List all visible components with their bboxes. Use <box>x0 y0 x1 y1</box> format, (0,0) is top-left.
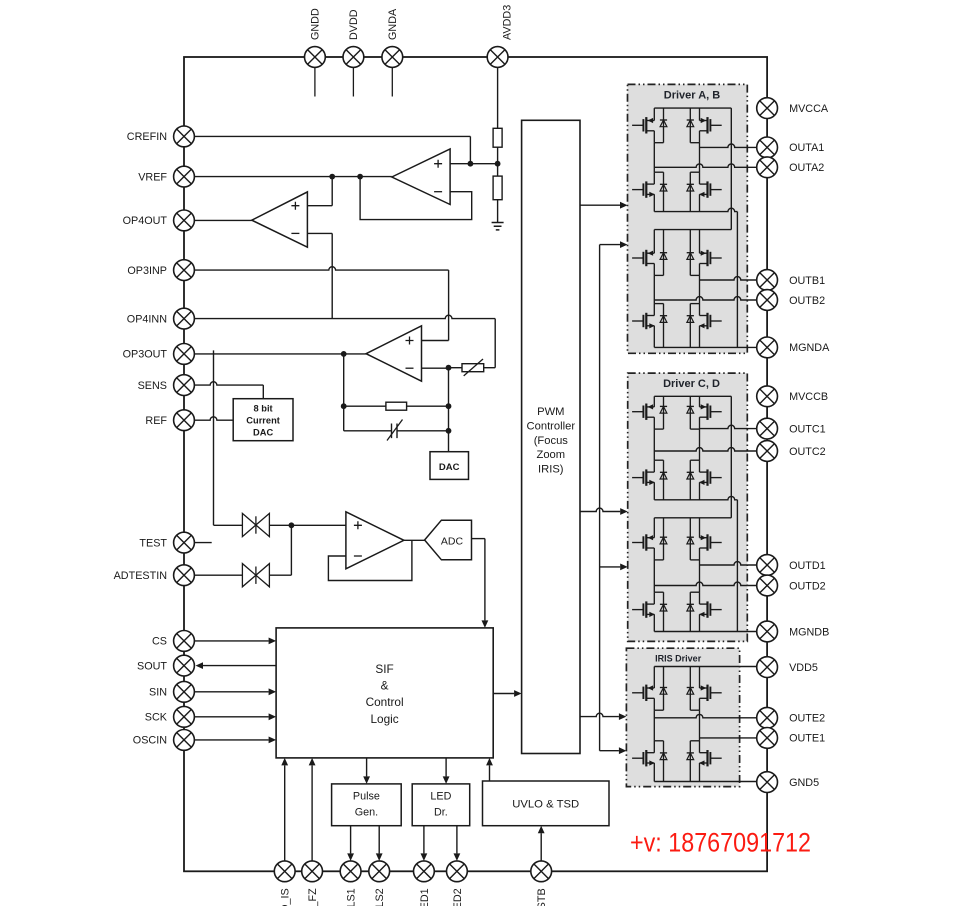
svg-text:SIN: SIN <box>149 687 167 699</box>
wire OUTD2 line <box>654 582 756 585</box>
pin ADTESTIN <box>174 565 195 586</box>
wire U3 minus input <box>422 367 449 369</box>
svg-text:DAC: DAC <box>439 462 460 473</box>
node fb cap right <box>446 428 452 434</box>
pin OP3OUT <box>174 344 195 365</box>
pin OUTA1 <box>757 137 778 158</box>
wire OP3OUT branch down <box>214 350 243 525</box>
pin REF <box>174 410 195 431</box>
transistor D Q13 <box>632 534 654 550</box>
wire U4 feedback <box>328 540 412 580</box>
wire B low-side sources <box>654 326 699 348</box>
svg-text:Dr.: Dr. <box>434 807 448 819</box>
svg-text:DAC: DAC <box>253 428 273 438</box>
resistor R2 <box>493 176 502 200</box>
svg-text:LED: LED <box>430 791 451 803</box>
pin OUTA2 <box>757 157 778 178</box>
wire U1 plus input to divider node <box>450 163 498 165</box>
svg-text:Pulse: Pulse <box>353 791 380 803</box>
wire E Q18 drain <box>699 667 701 689</box>
wire E Q20 drain jog <box>690 741 699 753</box>
wire D phase joins <box>654 548 699 560</box>
wire VREF net <box>194 176 391 178</box>
svg-text:LS1: LS1 <box>346 888 358 906</box>
wire PWM to Driver C,D 1 <box>580 508 620 511</box>
block SIF and Control Logic <box>276 628 493 758</box>
svg-text:STB: STB <box>536 888 548 906</box>
svg-text:Controller: Controller <box>527 420 576 432</box>
wire PWM to Driver A,B 1 <box>580 204 620 206</box>
wire R1 to node <box>497 147 499 176</box>
wire OUTE1 line <box>700 737 757 739</box>
body diode B D6 <box>687 230 694 276</box>
svg-text:Current: Current <box>246 416 280 426</box>
wire E left leg <box>653 710 655 741</box>
wire MGNDB rail <box>654 631 756 633</box>
wire DVDD stub <box>352 67 354 96</box>
wire SIF to Pulse Gen <box>366 758 368 777</box>
wire bridge A ground rail <box>654 208 737 211</box>
wire OUTD1 line <box>700 562 757 565</box>
pin SIN <box>174 681 195 702</box>
wire ADC to SIF <box>472 539 489 628</box>
node U3 minus <box>446 365 452 371</box>
wire D Q13 drain <box>653 518 655 538</box>
pin OUTD1 <box>757 555 778 576</box>
node VREF-feedback tap <box>357 174 363 180</box>
wire OUTC1 line <box>700 425 757 428</box>
transistor D Q15 <box>632 601 655 617</box>
svg-text:SCK: SCK <box>145 712 168 724</box>
resistor R1 <box>493 128 502 147</box>
wire Pulse Gen to LS2 <box>378 826 380 854</box>
svg-text:CS: CS <box>152 636 167 648</box>
wire PO_IS up to SIF <box>284 765 286 861</box>
svg-text:ADC: ADC <box>441 535 464 547</box>
wire OUTA1 line <box>700 144 757 147</box>
wire B Q7 drain jog <box>654 304 663 316</box>
body diode C D11 <box>660 460 667 500</box>
wire OSCIN to SIF <box>194 739 268 741</box>
wire C Q11 drain jog <box>654 460 663 472</box>
body diode A D2 <box>687 108 694 143</box>
svg-text:Control: Control <box>366 695 404 709</box>
wire OUTA2 line <box>654 164 756 167</box>
wire MGNDA rail <box>654 346 756 348</box>
wire feedback left branch <box>343 354 345 431</box>
wire A VCC rail <box>654 107 731 109</box>
wire B right leg <box>699 275 701 303</box>
wire OP3INP net <box>194 267 448 341</box>
pin LS1 <box>340 861 361 882</box>
svg-text:AVDD3: AVDD3 <box>502 5 514 40</box>
svg-text:OUTB1: OUTB1 <box>789 275 825 287</box>
svg-text:OP4INN: OP4INN <box>127 313 167 325</box>
node fb resistor left <box>341 403 347 409</box>
pin OUTB1 <box>757 270 778 291</box>
wire SIN to SIF <box>194 691 268 693</box>
wire E VCC rail <box>654 666 756 668</box>
wire AVDD3 to divider <box>497 67 499 128</box>
node VREF-U2 tap <box>329 174 335 180</box>
wire PWM to IRIS 1 <box>580 713 619 716</box>
svg-text:MGNDB: MGNDB <box>789 626 829 638</box>
svg-text:MVCCA: MVCCA <box>789 103 829 115</box>
block LED Dr <box>412 784 470 826</box>
wire C left leg <box>653 429 655 460</box>
pin OSCIN <box>174 730 195 751</box>
wire C VCC rail <box>654 395 731 397</box>
svg-text:OUTE1: OUTE1 <box>789 733 825 745</box>
wire SOUT from SIF <box>203 665 276 667</box>
pin PD_FZ <box>302 861 323 882</box>
wire GND5 rail <box>654 781 756 783</box>
transistor E Q18 <box>700 685 722 701</box>
svg-text:ADTESTIN: ADTESTIN <box>114 570 167 582</box>
pin PO_IS <box>274 861 295 882</box>
wire minus node to DAC <box>448 368 450 452</box>
wire C low-side sources <box>654 482 699 499</box>
svg-text:OUTD2: OUTD2 <box>789 580 826 592</box>
wire B Q8 drain jog <box>690 304 699 316</box>
wire E low-side sources <box>654 763 699 782</box>
driver block: Driver C, D <box>628 373 748 641</box>
transistor C Q11 <box>632 469 655 485</box>
pin DVDD <box>343 47 364 68</box>
driver block: Driver A, B <box>628 84 748 353</box>
pin GND5 <box>757 772 778 793</box>
svg-text:OUTA2: OUTA2 <box>789 162 824 174</box>
node OP3OUT-U3out <box>341 351 347 357</box>
svg-text:IRIS): IRIS) <box>538 464 564 476</box>
wire A low-side sources <box>654 194 699 211</box>
wire OP3OUT net <box>194 353 366 355</box>
IC outer border <box>184 57 767 871</box>
block 8bit Current DAC <box>233 399 293 441</box>
svg-text:OUTB2: OUTB2 <box>789 295 825 307</box>
wire A left leg <box>653 143 655 173</box>
op-amp U1 <box>392 149 450 205</box>
wire MVCC vertical C <box>730 396 732 518</box>
svg-text:OUTA1: OUTA1 <box>789 142 824 154</box>
body diode B D5 <box>660 230 667 276</box>
pin GNDD <box>305 47 326 68</box>
svg-text:MGNDA: MGNDA <box>789 342 830 354</box>
wire A right leg <box>699 143 701 173</box>
transistor E Q19 <box>632 750 655 766</box>
transistor C Q12 <box>699 469 722 485</box>
pin TEST <box>174 532 195 553</box>
pin LED1 <box>414 861 435 882</box>
wire A phase joins <box>654 131 699 143</box>
pin LS2 <box>369 861 390 882</box>
wire UVLO to SIF <box>489 765 491 781</box>
wire ADTESTIN net <box>194 574 242 576</box>
pin OP4OUT <box>174 210 195 231</box>
svg-text:LED2: LED2 <box>452 888 464 906</box>
driver block: IRIS Driver <box>626 648 739 786</box>
pin GNDA <box>382 47 403 68</box>
pin OUTC2 <box>757 441 778 462</box>
pin MVCCB <box>757 386 778 407</box>
ground <box>492 223 504 230</box>
wire A Q3 drain jog <box>654 172 663 184</box>
wire D low-side sources <box>654 614 699 631</box>
wire GNDA stub <box>391 67 393 96</box>
svg-text:PO_IS: PO_IS <box>280 888 292 906</box>
pin AVDD3 <box>487 47 508 68</box>
wire C phase joins <box>654 417 699 429</box>
svg-text:Logic: Logic <box>370 712 398 726</box>
wire OP4OUT to U2 output <box>194 219 251 221</box>
wire E Q17 drain <box>653 667 655 689</box>
pin SOUT <box>174 655 195 676</box>
wire SW1 to node <box>269 524 346 526</box>
svg-text:PWM: PWM <box>537 406 564 418</box>
wire R2 to ground <box>497 200 499 223</box>
wire PWM distribution vertical <box>599 245 601 751</box>
svg-text:DVDD: DVDD <box>348 9 360 40</box>
wire D left leg <box>653 560 655 592</box>
wire D Q16 drain jog <box>690 592 699 604</box>
block DAC <box>430 452 469 480</box>
node divider mid <box>495 161 501 167</box>
body diode C D9 <box>660 396 667 429</box>
wire REF net <box>194 417 233 420</box>
op-amp U4 <box>346 512 404 569</box>
svg-text:LED1: LED1 <box>419 888 431 906</box>
wire D Q14 drain <box>699 518 701 538</box>
body diode C D12 <box>687 460 694 500</box>
wire B phase joins <box>654 264 699 276</box>
transistor A Q2 <box>700 117 722 133</box>
varistor RV1 <box>449 359 496 376</box>
body diode D D13 <box>660 518 667 560</box>
op-amp U2 <box>252 192 308 247</box>
wire C Q9 drain <box>653 396 655 407</box>
wire U3 plus input <box>422 340 449 342</box>
svg-text:OSCIN: OSCIN <box>133 735 167 747</box>
body diode D D15 <box>660 592 667 631</box>
wire D Q15 drain jog <box>654 592 663 604</box>
wire U2 minus to OP4INN <box>307 233 332 318</box>
svg-text:IRIS Driver: IRIS Driver <box>655 654 702 664</box>
wire OUTC2 line <box>654 448 756 451</box>
body diode A D1 <box>660 108 667 143</box>
wire E phase joins <box>654 698 699 710</box>
wire TEST stub <box>194 542 211 544</box>
wire C Q12 drain jog <box>690 460 699 472</box>
body diode B D8 <box>687 304 694 348</box>
wire CS to SIF <box>194 640 268 642</box>
wire E right leg <box>699 710 701 741</box>
transistor B Q6 <box>700 250 722 266</box>
pin OP4INN <box>174 308 195 329</box>
wire PWM to Driver A,B 2 <box>600 244 620 246</box>
svg-text:SIF: SIF <box>375 662 393 676</box>
pin VREF <box>174 166 195 187</box>
node switch out <box>289 522 295 528</box>
svg-text:OUTE2: OUTE2 <box>789 713 825 725</box>
body diode A D4 <box>687 172 694 211</box>
wire C right leg <box>699 429 701 460</box>
wire OUTB2 line <box>654 297 756 300</box>
pin MGNDB <box>757 621 778 642</box>
svg-text:PD_FZ: PD_FZ <box>307 888 319 906</box>
svg-text:OUTC1: OUTC1 <box>789 423 826 435</box>
block Pulse Gen <box>332 784 402 826</box>
wire PD_FZ up to SIF <box>311 765 313 861</box>
svg-text:Zoom: Zoom <box>536 449 565 461</box>
transistor B Q8 <box>699 313 722 329</box>
svg-text:LS2: LS2 <box>374 888 386 906</box>
wire CREFIN net <box>194 136 470 163</box>
pin OUTB2 <box>757 290 778 311</box>
pin SENS <box>174 375 195 396</box>
pin CS <box>174 631 195 652</box>
svg-text:+v: 18767091712: +v: 18767091712 <box>630 828 811 858</box>
svg-text:8 bit: 8 bit <box>254 404 273 414</box>
wire STB to UVLO <box>540 833 542 861</box>
wire SCK to SIF <box>194 716 268 718</box>
wire OP4INN net <box>194 315 495 367</box>
transistor D Q16 <box>699 601 722 617</box>
svg-text:OUTC2: OUTC2 <box>789 446 826 458</box>
wire ground vertical A <box>736 212 738 348</box>
svg-text:UVLO & TSD: UVLO & TSD <box>512 799 579 811</box>
node U1+ / CREFIN tap <box>468 161 474 167</box>
body diode E D19 <box>660 741 667 782</box>
pin VDD5 <box>757 657 778 678</box>
pin OUTD2 <box>757 575 778 596</box>
svg-text:VDD5: VDD5 <box>789 662 818 674</box>
op-amp U3 <box>366 326 421 381</box>
wire D right leg <box>699 560 701 592</box>
wire D VCC rail <box>654 517 731 519</box>
pin OP3INP <box>174 260 195 281</box>
wire SW2 up to node <box>269 525 291 575</box>
wire B left leg <box>653 275 655 303</box>
wire A Q1 drain <box>653 108 655 120</box>
svg-text:(Focus: (Focus <box>534 435 569 447</box>
pin LED2 <box>447 861 468 882</box>
svg-text:OP3INP: OP3INP <box>127 265 167 277</box>
pin OUTE2 <box>757 707 778 728</box>
analog switch SW2 <box>242 564 269 587</box>
svg-text:TEST: TEST <box>139 537 167 549</box>
svg-text:OP3OUT: OP3OUT <box>123 349 168 361</box>
svg-text:&: & <box>381 679 389 693</box>
transistor A Q1 <box>632 117 654 133</box>
block UVLO and TSD <box>483 781 610 826</box>
wire U2 plus to VREF <box>307 177 332 206</box>
wire SIF to LED Dr <box>445 758 447 777</box>
wire U4 output <box>404 539 425 541</box>
wire B VCC rail <box>654 229 731 231</box>
body diode C D10 <box>687 396 694 429</box>
wire OUTB1 line <box>700 277 757 280</box>
svg-text:SENS: SENS <box>138 380 167 392</box>
svg-text:MVCCB: MVCCB <box>789 391 828 403</box>
body diode E D20 <box>687 741 694 782</box>
wire ground vertical C <box>736 500 738 632</box>
transistor C Q10 <box>700 404 722 420</box>
analog switch SW1 <box>242 513 269 536</box>
wire Pulse Gen to LS1 <box>350 826 352 854</box>
svg-text:Driver A, B: Driver A, B <box>664 90 721 102</box>
wire B Q5 drain <box>653 230 655 254</box>
pin OUTE1 <box>757 728 778 749</box>
svg-text:OP4OUT: OP4OUT <box>123 215 168 227</box>
svg-text:GND5: GND5 <box>789 777 819 789</box>
wire GNDD stub <box>314 67 316 96</box>
svg-text:Gen.: Gen. <box>355 807 378 819</box>
wire E Q19 drain jog <box>654 741 663 753</box>
pin OUTC1 <box>757 418 778 439</box>
block PWM Controller <box>522 120 580 753</box>
wire B Q6 drain <box>699 230 701 254</box>
transistor C Q9 <box>632 404 654 420</box>
wire MVCC vertical A <box>730 108 732 230</box>
svg-text:REF: REF <box>145 415 167 427</box>
pin STB <box>531 861 552 882</box>
transistor E Q17 <box>632 685 654 701</box>
body diode B D7 <box>660 304 667 348</box>
block ADC <box>425 520 472 560</box>
body diode A D3 <box>660 172 667 211</box>
wire PWM to IRIS 2 <box>600 750 619 752</box>
svg-text:Driver C, D: Driver C, D <box>663 378 720 390</box>
body diode E D17 <box>660 667 667 711</box>
body diode E D18 <box>687 667 694 711</box>
wire SIF to PWM <box>493 693 514 695</box>
transistor D Q14 <box>700 534 722 550</box>
pin SCK <box>174 706 195 727</box>
capacitor C1 <box>344 420 449 441</box>
svg-text:SOUT: SOUT <box>137 660 167 672</box>
wire A Q2 drain <box>699 108 701 120</box>
wire LED Dr to LED2 <box>456 826 458 854</box>
transistor A Q3 <box>632 181 655 197</box>
pin CREFIN <box>174 126 195 147</box>
svg-text:VREF: VREF <box>138 171 167 183</box>
wire OUTE2 line <box>654 714 756 717</box>
wire PWM to Driver C,D 2 <box>600 566 621 568</box>
resistor R3 <box>344 402 449 410</box>
transistor A Q4 <box>699 181 722 197</box>
transistor E Q20 <box>699 750 722 766</box>
wire A Q4 drain jog <box>690 172 699 184</box>
node fb resistor right <box>446 403 452 409</box>
body diode D D14 <box>687 518 694 560</box>
transistor B Q7 <box>632 313 655 329</box>
svg-text:GNDA: GNDA <box>387 8 399 40</box>
pin MVCCA <box>757 98 778 119</box>
transistor B Q5 <box>632 250 654 266</box>
wire C Q10 drain <box>699 396 701 407</box>
pin MGNDA <box>757 337 778 358</box>
wire bridge C ground rail <box>654 496 737 499</box>
svg-text:CREFIN: CREFIN <box>127 131 167 143</box>
svg-text:GNDD: GNDD <box>309 8 321 40</box>
wire LED Dr to LED1 <box>423 826 425 854</box>
wire SENS net <box>194 382 263 399</box>
body diode D D16 <box>687 592 694 631</box>
wire U1 feedback <box>360 177 472 220</box>
svg-text:OUTD1: OUTD1 <box>789 560 826 572</box>
